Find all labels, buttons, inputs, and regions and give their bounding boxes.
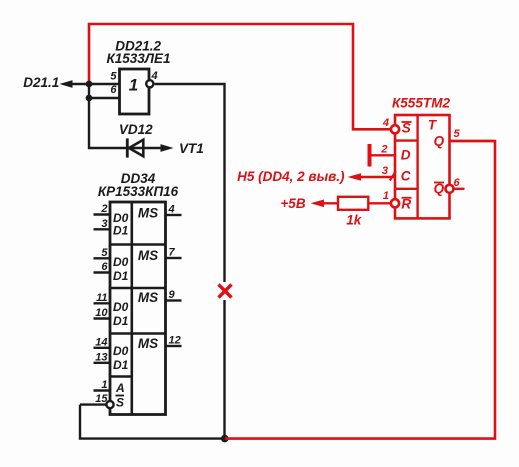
pin 4 inversion bubble S bbox=[391, 125, 399, 133]
svg-text:VT1: VT1 bbox=[179, 141, 204, 156]
wire red from gate input to FF S input bbox=[89, 24, 391, 129]
svg-text:7: 7 bbox=[169, 247, 176, 259]
svg-text:9: 9 bbox=[169, 289, 176, 301]
node junction pin5 bbox=[86, 81, 93, 88]
pin 7 output stub bbox=[166, 257, 182, 259]
label S-bar input bbox=[402, 121, 412, 136]
svg-text:1: 1 bbox=[101, 379, 107, 391]
svg-text:MS: MS bbox=[138, 336, 158, 351]
label S with overline bbox=[116, 396, 125, 410]
dynamic input slash at C bbox=[390, 171, 396, 180]
pin 12 output stub bbox=[166, 345, 182, 347]
svg-text:Q: Q bbox=[434, 134, 445, 149]
svg-text:H5 (DD4, 2 выв.): H5 (DD4, 2 выв.) bbox=[237, 169, 345, 184]
svg-text:2: 2 bbox=[100, 203, 107, 215]
svg-text:5: 5 bbox=[101, 247, 108, 259]
wire black output D21.1 with arrow bbox=[60, 80, 120, 88]
wire pin15 to bottom bus bbox=[80, 405, 225, 439]
svg-text:4: 4 bbox=[168, 204, 175, 216]
break mark X red bbox=[219, 285, 232, 298]
svg-text:MS: MS bbox=[138, 248, 158, 263]
svg-text:D1: D1 bbox=[113, 314, 129, 328]
svg-text:2: 2 bbox=[380, 143, 387, 155]
svg-text:D1: D1 bbox=[113, 269, 129, 283]
svg-text:4: 4 bbox=[151, 70, 158, 82]
svg-text:S: S bbox=[116, 396, 124, 410]
svg-text:КР1533КП16: КР1533КП16 bbox=[98, 184, 179, 199]
svg-text:MS: MS bbox=[138, 290, 158, 305]
svg-text:D0: D0 bbox=[113, 344, 129, 358]
diode VD12 bbox=[127, 138, 143, 157]
svg-text:D0: D0 bbox=[113, 300, 129, 314]
node junction pin6 bbox=[86, 95, 93, 102]
svg-text:3: 3 bbox=[382, 165, 388, 177]
pin 2 stub bbox=[94, 213, 111, 215]
wire Q-bar stub pin6 bbox=[454, 188, 465, 190]
svg-text:4: 4 bbox=[382, 117, 389, 129]
gate DD21.2 body bbox=[120, 69, 150, 114]
wire vertical below break bbox=[223, 300, 225, 439]
svg-text:6: 6 bbox=[454, 177, 461, 189]
svg-text:3: 3 bbox=[101, 218, 107, 230]
pin 5 stub bbox=[94, 257, 111, 259]
svg-text:D0: D0 bbox=[113, 255, 129, 269]
svg-text:6: 6 bbox=[101, 261, 108, 273]
wire diode to VT1 arrow bbox=[126, 144, 174, 152]
svg-text:D1: D1 bbox=[113, 358, 129, 372]
wire C input with arrow to H5 bbox=[348, 173, 396, 181]
flip-flop K555TM2 body bbox=[395, 115, 450, 218]
svg-text:D: D bbox=[401, 147, 411, 162]
pin 1 inversion bubble R bbox=[391, 199, 399, 207]
svg-text:A: A bbox=[115, 381, 125, 395]
svg-text:C: C bbox=[401, 169, 411, 184]
wire gate pin6 input bbox=[89, 97, 120, 99]
svg-text:MS: MS bbox=[138, 206, 158, 221]
svg-text:5: 5 bbox=[110, 71, 117, 83]
gate output inversion bubble pin4 bbox=[146, 80, 153, 87]
multiplexer DD34 body bbox=[110, 202, 166, 415]
label R-bar input bbox=[401, 196, 411, 211]
pin 11 stub bbox=[94, 302, 111, 304]
svg-text:12: 12 bbox=[169, 335, 181, 347]
svg-text:К1533ЛЕ1: К1533ЛЕ1 bbox=[106, 51, 170, 66]
pin 4 output stub bbox=[166, 214, 182, 216]
pin 9 output stub bbox=[166, 299, 182, 301]
wire Q output pin5 bbox=[450, 140, 496, 142]
resistor 1k bbox=[338, 197, 368, 210]
node bottom junction bbox=[221, 435, 229, 443]
svg-text:5: 5 bbox=[454, 128, 461, 140]
svg-text:+5В: +5В bbox=[280, 196, 305, 211]
svg-text:1: 1 bbox=[383, 190, 389, 202]
svg-text:14: 14 bbox=[95, 336, 107, 348]
label Q-bar bbox=[434, 181, 445, 196]
pin 3 stub bbox=[94, 228, 111, 230]
pin 6 stub bbox=[94, 271, 111, 273]
svg-text:13: 13 bbox=[95, 351, 107, 363]
pin 1 stub bbox=[94, 389, 111, 391]
pin 6 inversion bubble Q-bar bbox=[446, 185, 454, 193]
pin 15 inversion bubble bbox=[106, 401, 113, 408]
svg-text:D21.1: D21.1 bbox=[23, 75, 59, 90]
pin 15 wire bbox=[80, 403, 106, 405]
wire junction down to diode bbox=[89, 84, 126, 148]
svg-text:D1: D1 bbox=[113, 224, 129, 238]
svg-text:1k: 1k bbox=[346, 213, 363, 228]
pin 14 stub bbox=[94, 347, 111, 349]
svg-text:К555ТМ2: К555ТМ2 bbox=[392, 96, 450, 111]
svg-text:VD12: VD12 bbox=[119, 122, 153, 137]
wire R input through resistor bbox=[311, 200, 392, 208]
svg-text:1: 1 bbox=[129, 76, 138, 95]
wire gate output to vertical bbox=[155, 84, 225, 282]
wire D input stub with terminator bbox=[369, 144, 395, 167]
svg-text:10: 10 bbox=[95, 307, 108, 319]
svg-text:11: 11 bbox=[96, 292, 107, 304]
wire red bottom to FF Q bbox=[225, 141, 495, 439]
pin 10 stub bbox=[94, 317, 111, 319]
pin 13 stub bbox=[94, 362, 111, 364]
svg-text:6: 6 bbox=[110, 84, 117, 96]
